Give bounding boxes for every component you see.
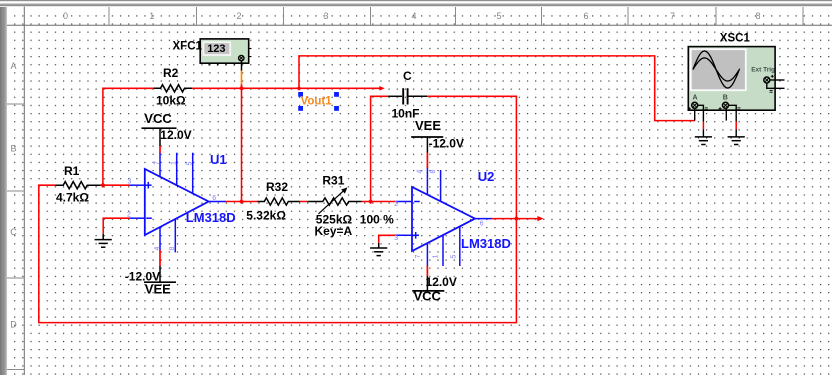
svg-text:8: 8 bbox=[430, 170, 437, 174]
resistor R2 bbox=[153, 85, 192, 92]
svg-text:4: 4 bbox=[417, 170, 424, 174]
svg-text:8: 8 bbox=[755, 11, 760, 21]
svg-text:4: 4 bbox=[411, 11, 416, 21]
U1 pin1 line bbox=[176, 153, 178, 186]
svg-text:D: D bbox=[10, 320, 17, 330]
svg-text:1: 1 bbox=[433, 255, 440, 259]
svg-text:12.0V: 12.0V bbox=[160, 128, 191, 142]
svg-text:Ext Trig: Ext Trig bbox=[751, 67, 775, 74]
wire scope B red segment bbox=[735, 122, 737, 130]
U1 plus sign bbox=[145, 184, 152, 186]
wire XFC1 drop red bbox=[241, 84, 243, 88]
junction U2 output bbox=[514, 216, 519, 221]
svg-text:Vout1: Vout1 bbox=[301, 96, 333, 108]
svg-text:XFC1: XFC1 bbox=[173, 41, 203, 53]
svg-text:12.0V: 12.0V bbox=[426, 275, 457, 289]
ground scope B bbox=[728, 137, 745, 145]
svg-text:5: 5 bbox=[496, 11, 501, 21]
VEE symbol U1 bbox=[144, 281, 176, 283]
svg-text:A: A bbox=[693, 95, 698, 102]
capacitor C bbox=[388, 95, 427, 97]
XSC1 ext trig pin lines bbox=[767, 80, 785, 88]
oscilloscope XSC1 bbox=[688, 47, 785, 122]
VCC symbol U2 bbox=[412, 290, 444, 292]
svg-text:2: 2 bbox=[394, 201, 398, 208]
VCC symbol U1 bbox=[142, 127, 177, 129]
XSC1 A hook to ground bbox=[695, 105, 737, 121]
svg-text:6: 6 bbox=[480, 220, 484, 227]
svg-text:U2: U2 bbox=[478, 169, 495, 184]
left ruler division ticks bbox=[7, 104, 24, 370]
junction wire branch to scope bbox=[297, 86, 302, 91]
ruler letters bbox=[10, 61, 17, 330]
wire XFC1 drop orange bbox=[241, 71, 243, 85]
svg-text:Key=A: Key=A bbox=[315, 224, 353, 238]
wire U1 output to R32 bbox=[226, 201, 257, 203]
U1 pin6 output line bbox=[209, 201, 226, 203]
scope waveform A bbox=[693, 51, 740, 88]
svg-text:10kΩ: 10kΩ bbox=[156, 93, 186, 107]
junction node A bbox=[100, 183, 105, 188]
junction U1 output bbox=[239, 199, 244, 204]
svg-text:100 %: 100 % bbox=[360, 213, 394, 227]
svg-text:6: 6 bbox=[212, 195, 216, 202]
svg-text:4: 4 bbox=[154, 247, 161, 251]
svg-text:5: 5 bbox=[451, 255, 458, 259]
terminal polarity marks bbox=[688, 75, 774, 110]
svg-text:2: 2 bbox=[236, 11, 241, 21]
XFC1 terminal bbox=[239, 55, 244, 60]
svg-text:1: 1 bbox=[170, 161, 177, 165]
svg-text:LM318D: LM318D bbox=[186, 210, 236, 225]
U2 minus sign bbox=[414, 201, 420, 203]
svg-text:B: B bbox=[10, 144, 16, 154]
wire R31 to U2 pin2 bbox=[362, 201, 396, 203]
svg-text:C: C bbox=[403, 69, 412, 83]
U2 pin3 line bbox=[396, 234, 412, 236]
wire U2 pin3 to ground bbox=[379, 235, 396, 243]
XSC1 terminal B bbox=[723, 102, 729, 108]
svg-text:7: 7 bbox=[415, 255, 422, 259]
wire U1 pin2 to ground bbox=[103, 218, 129, 234]
top ruler division ticks bbox=[109, 7, 803, 25]
potentiometer R31 bbox=[307, 198, 361, 205]
svg-text:A: A bbox=[10, 61, 16, 71]
junction C left bbox=[368, 199, 373, 204]
U2 pin4 line bbox=[426, 168, 428, 196]
svg-text:R2: R2 bbox=[163, 66, 179, 80]
wire scope A red segment bbox=[702, 122, 704, 130]
U1 pin3 line bbox=[129, 184, 145, 186]
resistor R32 bbox=[257, 198, 300, 205]
svg-text:U1: U1 bbox=[210, 152, 227, 167]
svg-text:3: 3 bbox=[394, 235, 398, 242]
svg-text:VEE: VEE bbox=[415, 118, 441, 133]
U1 pin8 line bbox=[174, 219, 176, 252]
wire feedback loop left/bottom/right bbox=[39, 96, 517, 322]
XSC1 terminal ExtTrig bbox=[764, 77, 770, 83]
svg-text:4.7kΩ: 4.7kΩ bbox=[56, 191, 89, 205]
svg-text:6: 6 bbox=[583, 11, 588, 21]
svg-text:VEE: VEE bbox=[145, 281, 171, 296]
U1 minus sign bbox=[146, 217, 152, 219]
frequency counter XFC1 bbox=[200, 39, 251, 66]
U1 pin2 line bbox=[129, 217, 145, 219]
U2 pin7 line bbox=[426, 243, 428, 266]
U1 pin5 line bbox=[192, 153, 194, 195]
wire R2 right to Vout arrow bbox=[192, 87, 380, 89]
svg-text:1: 1 bbox=[149, 11, 154, 21]
svg-text:VCC: VCC bbox=[414, 289, 442, 304]
svg-text:LM318D: LM318D bbox=[461, 236, 511, 251]
svg-text:0: 0 bbox=[63, 11, 68, 21]
wire C left branch vertical bbox=[371, 96, 388, 201]
op-amp U2 bbox=[412, 187, 475, 251]
wire XFC1 drop black bbox=[241, 61, 243, 71]
wire branch up to scope bbox=[299, 56, 695, 121]
svg-text:8: 8 bbox=[169, 247, 176, 251]
svg-text:5.32kΩ: 5.32kΩ bbox=[246, 208, 286, 222]
svg-text:R31: R31 bbox=[322, 173, 344, 187]
svg-text:123: 123 bbox=[207, 43, 225, 55]
svg-text:7: 7 bbox=[154, 161, 161, 165]
U2 pin5 line bbox=[459, 226, 461, 266]
svg-text:B: B bbox=[723, 95, 728, 102]
ground U1 pin2 bbox=[95, 234, 112, 247]
wire node A up to R2 left bbox=[103, 88, 153, 185]
svg-text:3: 3 bbox=[127, 179, 131, 186]
arrow U2 output end bbox=[537, 216, 543, 221]
svg-text:XSC1: XSC1 bbox=[720, 33, 751, 45]
net label Vout1 bbox=[298, 92, 339, 111]
U2 pin6 output line bbox=[475, 218, 492, 220]
resistor R1 bbox=[55, 182, 100, 189]
wire C right to feedback bbox=[427, 95, 517, 97]
scope waveform B bbox=[693, 58, 739, 81]
U2 pin2 line bbox=[396, 201, 412, 203]
VEE symbol U2 bbox=[411, 136, 443, 138]
left panel strip bbox=[0, 7, 7, 375]
wire U1 output vertical feedback bbox=[241, 88, 243, 201]
op-amp U1 bbox=[145, 169, 209, 235]
svg-text:3: 3 bbox=[323, 11, 328, 21]
svg-text:5: 5 bbox=[186, 162, 193, 166]
U2 plus sign bbox=[412, 234, 419, 236]
svg-text:VCC: VCC bbox=[144, 111, 172, 126]
U2 pin8 line bbox=[440, 170, 442, 202]
U1 pin4 line bbox=[159, 227, 161, 250]
U1 pin7 line bbox=[159, 153, 161, 178]
wire R1 right to node A bbox=[100, 184, 129, 186]
XSC1 terminal A bbox=[692, 102, 698, 108]
svg-text:2: 2 bbox=[127, 211, 131, 218]
svg-text:R32: R32 bbox=[266, 180, 288, 194]
svg-text:R1: R1 bbox=[64, 164, 80, 178]
junction R2/XFC1 bbox=[239, 86, 244, 91]
ground U2 pin3 bbox=[370, 243, 387, 256]
svg-text:-12.0V: -12.0V bbox=[429, 137, 464, 151]
ruler numbers bbox=[63, 11, 761, 21]
ground scope A bbox=[695, 137, 712, 145]
U2 pin1 line bbox=[442, 235, 444, 266]
wire R1 left bbox=[38, 184, 55, 186]
svg-text:C: C bbox=[10, 227, 17, 237]
wire R32 to R31 bbox=[300, 201, 307, 203]
arrow Vout1 wire end bbox=[379, 86, 385, 91]
svg-text:7: 7 bbox=[670, 11, 675, 21]
toolbar bottom strip bbox=[0, 0, 832, 7]
wire U2 output bbox=[492, 218, 538, 220]
